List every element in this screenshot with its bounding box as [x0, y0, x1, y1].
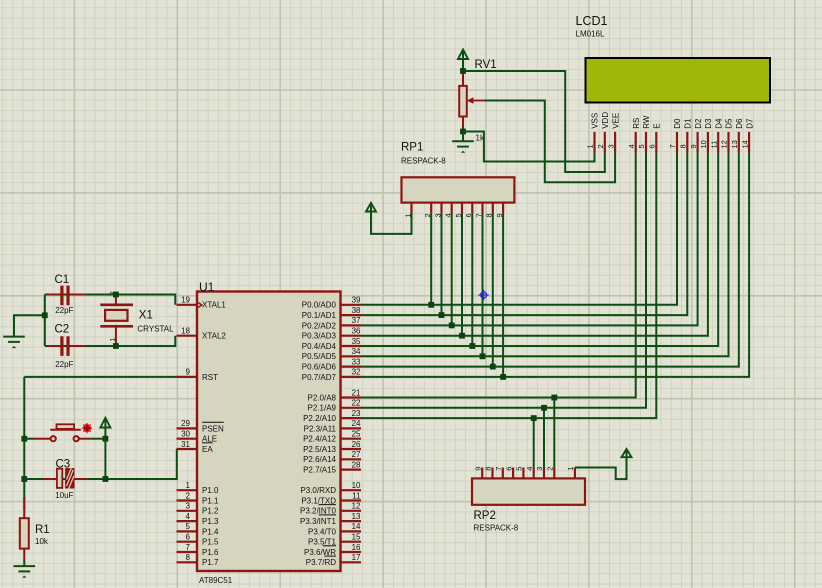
svg-text:P1.1: P1.1 — [202, 496, 219, 505]
pin 5 RW of LCD1 — [637, 115, 651, 152]
svg-text:D2: D2 — [694, 118, 703, 129]
wire C1 row to XTAL1 — [45, 295, 176, 305]
svg-text:P2.5/A13: P2.5/A13 — [303, 445, 336, 454]
svg-text:22: 22 — [352, 399, 361, 408]
svg-text:36: 36 — [352, 327, 361, 336]
junction RV1 top node — [460, 68, 466, 74]
power arrow at button — [100, 418, 110, 439]
pin 4 of RP1 — [444, 203, 453, 218]
svg-text:EA: EA — [202, 445, 213, 454]
pin 1 of RP1 — [403, 203, 412, 218]
svg-text:P3.6/WR: P3.6/WR — [304, 548, 336, 557]
wire RP1 pin6 to P0.4 — [471, 213, 473, 346]
pin 21 P2.0/A8 of U1 — [308, 388, 362, 402]
pin 34 P0.5/AD5 of U1 — [302, 347, 361, 361]
svg-text:XTAL2: XTAL2 — [202, 332, 226, 341]
resistor pack RP2 RESPACK-8 — [472, 478, 585, 532]
svg-text:23: 23 — [352, 409, 361, 418]
pin 12 D5 of LCD1 — [720, 118, 734, 152]
svg-text:33: 33 — [352, 357, 361, 366]
pin 8 P1.7 of U1 — [177, 553, 220, 567]
svg-text:18: 18 — [181, 327, 190, 336]
svg-text:38: 38 — [352, 306, 361, 315]
pin 1 P1.0 of U1 — [177, 481, 220, 495]
pin 22 P2.1/A9 of U1 — [308, 399, 362, 413]
svg-text:3: 3 — [186, 502, 191, 511]
svg-text:34: 34 — [352, 347, 361, 356]
svg-text:P3.0/RXD: P3.0/RXD — [300, 486, 336, 495]
svg-text:11: 11 — [352, 491, 361, 500]
pin 37 P0.2/AD2 of U1 — [302, 316, 361, 330]
svg-text:D5: D5 — [725, 118, 734, 129]
svg-text:RST: RST — [202, 373, 218, 382]
svg-text:RW: RW — [642, 115, 651, 129]
svg-text:2: 2 — [546, 467, 555, 471]
pin 7 of RP1 — [474, 203, 483, 218]
svg-text:C3: C3 — [56, 458, 71, 470]
svg-text:P0.0/AD0: P0.0/AD0 — [302, 301, 337, 310]
junction RP1 pin8/P0.6 — [490, 364, 496, 370]
svg-text:LM016L: LM016L — [576, 29, 605, 38]
svg-text:28: 28 — [352, 460, 361, 469]
junction left rail / button row — [21, 436, 27, 442]
svg-text:32: 32 — [352, 368, 361, 377]
svg-text:7: 7 — [494, 467, 503, 471]
svg-text:1: 1 — [109, 338, 116, 342]
svg-text:4: 4 — [186, 512, 191, 521]
potentiometer RV1 — [459, 59, 496, 142]
junction RP2 pin3/P2.1 — [541, 405, 547, 411]
pin 8 D1 of LCD1 — [679, 118, 693, 152]
wire P0.3 to LCD D3 — [361, 152, 708, 335]
svg-text:U1: U1 — [199, 280, 215, 294]
pin 10 P3.0/RXD of U1 — [300, 481, 361, 495]
svg-text:P1.2: P1.2 — [202, 507, 219, 516]
svg-text:P1.3: P1.3 — [202, 517, 219, 526]
pin 14 D7 of LCD1 — [740, 118, 754, 152]
svg-text:14: 14 — [352, 522, 361, 531]
pin 14 P3.4/T0 of U1 — [308, 522, 361, 536]
junction RP1 pin6/P0.4 — [469, 343, 475, 349]
pin 6 E of LCD1 — [648, 123, 662, 152]
wire P0.0 to LCD D0 — [361, 152, 677, 304]
resistor R1 — [20, 498, 50, 560]
svg-text:9: 9 — [689, 144, 698, 148]
svg-text:5: 5 — [515, 467, 524, 471]
svg-text:3: 3 — [535, 467, 544, 471]
svg-text:11: 11 — [709, 141, 718, 149]
svg-text:2: 2 — [596, 144, 605, 148]
pin 4 RS of LCD1 — [627, 118, 641, 153]
pin 23 P2.2/A10 of U1 — [303, 409, 361, 423]
svg-text:P1.6: P1.6 — [202, 548, 219, 557]
svg-text:P3.4/T0: P3.4/T0 — [308, 527, 337, 536]
svg-text:P1.7: P1.7 — [202, 558, 219, 567]
svg-text:14: 14 — [740, 140, 749, 148]
pin 26 P2.5/A13 of U1 — [303, 440, 361, 454]
wire P0.2 to LCD D2 — [361, 152, 698, 325]
wire RP1 pin8 to P0.6 — [492, 213, 494, 367]
wire P2.1 to LCD RW — [361, 152, 646, 407]
svg-text:P2.6/A14: P2.6/A14 — [303, 455, 336, 464]
junction RV1 bottom node — [460, 129, 466, 135]
svg-text:P0.3/AD3: P0.3/AD3 — [302, 332, 337, 341]
svg-text:21: 21 — [352, 388, 361, 397]
svg-text:P0.7/AD7: P0.7/AD7 — [302, 373, 337, 382]
wire button row right — [91, 438, 106, 440]
svg-text:12: 12 — [720, 140, 729, 148]
svg-text:P1.5: P1.5 — [202, 538, 219, 547]
svg-text:10: 10 — [352, 481, 361, 490]
svg-text:P0.4/AD4: P0.4/AD4 — [302, 342, 337, 351]
wire RP2 pin1 to power — [575, 457, 627, 479]
pin 13 P3.3/INT1 of U1 — [300, 512, 361, 526]
LCD LCD1 LM016L — [576, 14, 771, 103]
pin 4 of RP2 — [525, 467, 534, 479]
svg-text:P2.0/A8: P2.0/A8 — [308, 393, 337, 402]
wire RP1 pin5 to P0.3 — [461, 213, 463, 336]
svg-text:D6: D6 — [735, 118, 744, 129]
svg-text:37: 37 — [352, 316, 361, 325]
svg-text:RP1: RP1 — [401, 142, 423, 154]
pin 9 RST of U1 — [177, 368, 219, 382]
pin 32 P0.7/AD7 of U1 — [302, 368, 361, 382]
svg-text:15: 15 — [352, 533, 361, 542]
pin 1 VSS of LCD1 — [586, 113, 600, 153]
capacitor C3 — [43, 458, 88, 500]
capacitor C1 — [47, 274, 86, 315]
wire C3 row to EA — [24, 449, 177, 479]
svg-text:10k: 10k — [35, 537, 49, 546]
svg-text:25: 25 — [352, 430, 361, 439]
svg-text:17: 17 — [352, 553, 361, 562]
pin 31 EA of U1 — [177, 440, 214, 454]
svg-text:RP2: RP2 — [474, 510, 496, 522]
svg-text:RESPACK-8: RESPACK-8 — [474, 523, 519, 532]
svg-text:8: 8 — [679, 144, 688, 148]
wire P0.7 to LCD D7 — [361, 152, 749, 377]
svg-text:R1: R1 — [35, 524, 50, 536]
svg-text:D0: D0 — [673, 118, 682, 129]
svg-text:9: 9 — [473, 467, 482, 471]
pin 24 P2.3/A11 of U1 — [304, 419, 361, 433]
svg-text:8: 8 — [484, 467, 493, 471]
wire RST row — [24, 376, 177, 378]
pin 9 of RP2 — [473, 467, 482, 479]
junction button/arrow — [103, 436, 109, 442]
wire P0.5 to LCD D5 — [361, 152, 729, 356]
svg-text:35: 35 — [352, 337, 361, 346]
pin 8 of RP1 — [485, 203, 494, 218]
pin 2 P1.1 of U1 — [177, 491, 220, 505]
svg-text:P2.4/A12: P2.4/A12 — [303, 435, 336, 444]
wire RP1 pin2 to P0.0 — [430, 213, 432, 305]
svg-text:P3.1/TXD: P3.1/TXD — [301, 496, 336, 505]
junction RP1 pin7/P0.5 — [480, 353, 486, 359]
pin 9 D2 of LCD1 — [689, 118, 703, 152]
svg-text:1: 1 — [566, 467, 575, 471]
pin 10 D3 of LCD1 — [699, 118, 713, 152]
svg-text:1: 1 — [186, 481, 191, 490]
pin 18 XTAL2 of U1 — [177, 327, 227, 341]
junction RP1 pin3/P0.1 — [439, 312, 445, 318]
junction RP1 pin2/P0.0 — [428, 302, 434, 308]
resistor pack RP1 RESPACK-8 — [401, 142, 514, 203]
wire P0.6 to LCD D6 — [361, 152, 739, 366]
svg-text:22pF: 22pF — [55, 306, 73, 315]
svg-text:4: 4 — [627, 144, 636, 148]
wire RP1 pin9 to P0.7 — [502, 213, 504, 377]
svg-text:P0.6/AD6: P0.6/AD6 — [302, 363, 337, 372]
svg-text:9: 9 — [186, 368, 191, 377]
pin 7 of RP2 — [494, 467, 503, 479]
wire ground branch — [14, 315, 45, 336]
junction RP1 pin4/P0.2 — [449, 323, 455, 329]
pin 7 D0 of LCD1 — [668, 118, 682, 152]
svg-text:5: 5 — [186, 522, 191, 531]
pin 19 XTAL1 of U1 — [177, 296, 227, 310]
svg-text:P0.5/AD5: P0.5/AD5 — [302, 352, 337, 361]
wire C1-C2 left vertical — [44, 295, 46, 347]
svg-text:P3.7/RD: P3.7/RD — [306, 558, 336, 567]
svg-text:6: 6 — [648, 144, 657, 148]
pin number 2 of X1 — [109, 291, 116, 295]
svg-text:XTAL1: XTAL1 — [202, 301, 226, 310]
wire RV1 wiper to LCD VEE — [484, 101, 615, 183]
pin 2 VDD of LCD1 — [596, 112, 610, 153]
pin 6 of RP1 — [464, 203, 473, 218]
wire RV1 bottom to LCD VSS — [463, 132, 595, 162]
junction RP1 pin9/P0.7 — [500, 374, 506, 380]
pin 36 P0.3/AD3 of U1 — [302, 327, 361, 341]
svg-text:P2.7/A15: P2.7/A15 — [303, 466, 336, 475]
pin 6 of RP2 — [504, 467, 513, 479]
wire C2 row to XTAL2 — [45, 336, 176, 346]
pin 27 P2.6/A14 of U1 — [303, 450, 361, 464]
svg-text:VEE: VEE — [611, 113, 620, 129]
svg-text:6: 6 — [186, 533, 191, 542]
pin 3 P1.2 of U1 — [177, 502, 220, 516]
wire RP1 pin4 to P0.2 — [451, 213, 453, 325]
svg-text:2: 2 — [186, 491, 191, 500]
svg-text:29: 29 — [181, 419, 190, 428]
junction X1 bottom node — [113, 343, 119, 349]
power arrow at RP2 — [622, 449, 632, 461]
wire left rail vertical — [23, 377, 25, 510]
svg-text:RS: RS — [632, 118, 641, 129]
ground GND1 left — [3, 315, 25, 348]
svg-text:10: 10 — [699, 140, 708, 148]
junction left rail / C3 row — [21, 476, 27, 482]
svg-text:39: 39 — [352, 296, 361, 305]
svg-text:ALE: ALE — [202, 435, 217, 444]
svg-text:7: 7 — [186, 543, 191, 552]
svg-text:C2: C2 — [55, 324, 70, 336]
pin 30 ALE of U1 — [177, 430, 218, 444]
pin 5 of RP2 — [515, 467, 524, 479]
wire RP2 pin2 to P2.0 — [553, 398, 555, 468]
svg-text:26: 26 — [352, 440, 361, 449]
pin 9 of RP1 — [495, 203, 504, 218]
svg-text:24: 24 — [352, 419, 361, 428]
svg-text:12: 12 — [352, 502, 361, 511]
wire RP1 pin7 to P0.5 — [482, 213, 484, 356]
origin marker — [478, 290, 488, 300]
pin 17 P3.7/RD of U1 — [306, 553, 361, 567]
svg-text:P1.4: P1.4 — [202, 527, 219, 536]
svg-text:D7: D7 — [745, 118, 754, 129]
svg-text:6: 6 — [504, 467, 513, 471]
pin 15 P3.5/T1 of U1 — [308, 533, 361, 547]
junction C1/C2/ground tee — [42, 312, 48, 318]
pin 4 P1.3 of U1 — [177, 512, 220, 526]
svg-text:8: 8 — [186, 553, 191, 562]
pin 2 of RP1 — [423, 203, 432, 218]
svg-text:P3.2/INT0: P3.2/INT0 — [300, 507, 337, 516]
pin 25 P2.4/A12 of U1 — [303, 430, 361, 444]
ground GND2 bottom — [14, 560, 36, 578]
svg-text:D3: D3 — [704, 118, 713, 129]
pin 39 P0.0/AD0 of U1 — [302, 296, 361, 310]
svg-text:13: 13 — [730, 140, 739, 148]
svg-text:10uF: 10uF — [55, 491, 73, 500]
svg-text:E: E — [653, 123, 662, 128]
pin 6 P1.5 of U1 — [177, 533, 220, 547]
svg-text:VDD: VDD — [601, 112, 610, 129]
pin 35 P0.4/AD4 of U1 — [302, 337, 361, 351]
pin 11 P3.1/TXD of U1 — [301, 491, 361, 505]
svg-text:19: 19 — [181, 296, 190, 305]
pin 12 P3.2/INT0 of U1 — [300, 502, 361, 516]
svg-text:1: 1 — [586, 144, 595, 148]
ground GND3 under RV1 — [452, 132, 474, 153]
pin 13 D6 of LCD1 — [730, 118, 744, 152]
wire P2.0 to LCD RS — [361, 152, 636, 397]
wire RV1 top to LCD VDD — [463, 71, 605, 172]
wire P0.4 to LCD D4 — [361, 152, 718, 346]
svg-text:VSS: VSS — [591, 113, 600, 129]
power arrow at RP1 — [366, 203, 376, 214]
push button — [34, 424, 91, 441]
wire RP1 pin3 to P0.1 — [441, 213, 443, 315]
svg-text:X1: X1 — [139, 309, 153, 321]
crystal X1 — [100, 295, 174, 347]
junction RP1 pin5/P0.3 — [459, 333, 465, 339]
pin 29 PSEN of U1 — [177, 419, 225, 433]
pin 3 VEE of LCD1 — [606, 113, 620, 153]
svg-text:P1.0: P1.0 — [202, 486, 219, 495]
capacitor C2 — [47, 324, 86, 369]
svg-text:30: 30 — [181, 430, 190, 439]
svg-text:5: 5 — [637, 144, 646, 148]
svg-text:RESPACK-8: RESPACK-8 — [401, 156, 446, 165]
junction RP2 pin4/P2.2 — [531, 415, 537, 421]
svg-text:13: 13 — [352, 512, 361, 521]
svg-text:AT89C51: AT89C51 — [199, 576, 233, 585]
wire button to C3 row — [104, 439, 106, 479]
pin 33 P0.6/AD6 of U1 — [302, 357, 361, 371]
svg-text:P0.1/AD1: P0.1/AD1 — [302, 311, 337, 320]
pin 28 P2.7/A15 of U1 — [303, 460, 361, 474]
wire button row left — [24, 438, 34, 440]
junction X1 top node — [113, 292, 119, 298]
pin 5 P1.4 of U1 — [177, 522, 220, 536]
svg-text:7: 7 — [668, 144, 677, 148]
pin 11 D4 of LCD1 — [709, 118, 723, 152]
pin number 1 of X1 — [109, 338, 116, 342]
power arrow at RV1 — [458, 50, 468, 72]
svg-text:P2.3/A11: P2.3/A11 — [304, 424, 337, 433]
pin 5 of RP1 — [454, 203, 463, 218]
button actuator marker — [82, 423, 92, 433]
svg-text:4: 4 — [525, 467, 534, 471]
svg-text:C1: C1 — [55, 274, 70, 286]
wire P2.2 to LCD E — [361, 152, 656, 418]
pin 8 of RP2 — [484, 467, 493, 479]
svg-text:D4: D4 — [714, 118, 723, 129]
junction C3 row / button branch — [103, 476, 109, 482]
wire P0.1 to LCD D1 — [361, 152, 687, 315]
svg-text:D1: D1 — [684, 118, 693, 129]
svg-text:31: 31 — [181, 440, 190, 449]
svg-text:3: 3 — [606, 144, 615, 148]
svg-text:PSEN: PSEN — [202, 424, 224, 433]
svg-text:27: 27 — [352, 450, 361, 459]
svg-text:CRYSTAL: CRYSTAL — [137, 325, 174, 334]
svg-text:LCD1: LCD1 — [576, 14, 608, 28]
junction RP2 pin2/P2.0 — [551, 395, 557, 401]
svg-text:22pF: 22pF — [55, 360, 73, 369]
pin 3 of RP2 — [535, 467, 544, 479]
pin 38 P0.1/AD1 of U1 — [302, 306, 361, 320]
pin 7 P1.6 of U1 — [177, 543, 220, 557]
svg-text:RV1: RV1 — [475, 59, 497, 71]
wire RP2 pin3 to P2.1 — [543, 408, 545, 468]
pin 2 of RP2 — [546, 467, 555, 479]
wire RP2 pin4 to P2.2 — [533, 418, 535, 467]
svg-text:P2.1/A9: P2.1/A9 — [308, 404, 337, 413]
wire RP1 pin1 to power — [371, 212, 412, 234]
svg-text:P3.5/T1: P3.5/T1 — [308, 538, 337, 547]
op-amp U1 AT89C51 microcontroller — [197, 280, 341, 585]
svg-text:16: 16 — [352, 543, 361, 552]
pin 16 P3.6/WR of U1 — [304, 543, 361, 557]
pin 3 of RP1 — [433, 203, 442, 218]
pin 1 of RP2 — [566, 467, 575, 479]
svg-text:P2.2/A10: P2.2/A10 — [303, 414, 336, 423]
svg-text:P0.2/AD2: P0.2/AD2 — [302, 321, 337, 330]
svg-text:P3.3/INT1: P3.3/INT1 — [300, 517, 337, 526]
